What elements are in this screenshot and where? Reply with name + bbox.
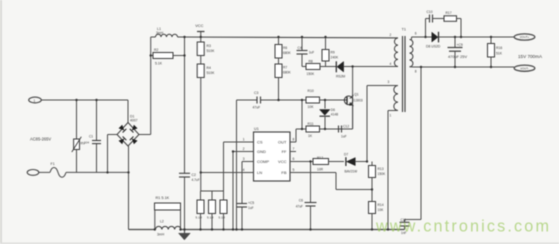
svg-text:4007: 4007 (130, 119, 138, 123)
svg-text:47uF: 47uF (253, 106, 261, 110)
svg-text:240K: 240K (331, 55, 340, 59)
svg-text:3mH: 3mH (157, 232, 165, 236)
svg-text:C12: C12 (343, 125, 349, 129)
svg-text:8: 8 (415, 70, 417, 74)
svg-text:510K: 510K (207, 49, 216, 53)
svg-text:RS2M: RS2M (336, 75, 345, 79)
svg-text:D7: D7 (344, 152, 348, 156)
svg-text:R2: R2 (154, 48, 158, 52)
svg-text:6: 6 (293, 157, 295, 161)
svg-text:R11: R11 (308, 122, 314, 126)
svg-text:5.1R: 5.1R (207, 216, 214, 220)
svg-text:R16: R16 (496, 46, 502, 50)
svg-text:6: 6 (415, 32, 417, 36)
svg-text:VCC: VCC (195, 23, 203, 28)
svg-text:Q1: Q1 (354, 93, 359, 97)
svg-text:10R: 10R (317, 168, 324, 172)
svg-text:R6: R6 (283, 46, 287, 50)
svg-text:10K: 10K (378, 208, 385, 212)
svg-text:4: 4 (390, 62, 392, 66)
svg-text:1uF: 1uF (248, 206, 254, 210)
svg-text:1: 1 (390, 114, 392, 118)
svg-text:C10: C10 (427, 10, 433, 14)
svg-text:LN: LN (257, 170, 262, 175)
svg-text:R17: R17 (446, 11, 452, 15)
svg-text:5.1K: 5.1K (155, 62, 163, 66)
svg-text:www.cntronics.com: www.cntronics.com (375, 218, 551, 236)
svg-text:5.1R: 5.1R (196, 216, 203, 220)
svg-text:510K: 510K (207, 71, 216, 75)
svg-text:D6: D6 (331, 108, 335, 112)
svg-text:2: 2 (390, 33, 392, 37)
svg-text:150K: 150K (307, 72, 316, 76)
svg-text:COMP: COMP (257, 159, 269, 164)
svg-text:R13: R13 (378, 167, 384, 171)
svg-text:8: 8 (293, 138, 295, 142)
svg-text:R3: R3 (207, 44, 211, 48)
svg-text:470uF 25V: 470uF 25V (448, 54, 467, 59)
svg-text:1: 1 (34, 99, 36, 103)
svg-text:L1: L1 (157, 27, 161, 31)
svg-text:C4: C4 (298, 46, 302, 50)
svg-text:C6: C6 (299, 199, 303, 203)
svg-text:1: 1 (243, 138, 245, 142)
svg-text:T1: T1 (402, 28, 406, 32)
svg-text:104: 104 (84, 140, 89, 144)
svg-text:1K: 1K (308, 134, 313, 138)
svg-text:FF: FF (282, 149, 287, 154)
svg-text:680K: 680K (283, 71, 292, 75)
svg-text:51K: 51K (496, 51, 503, 55)
svg-text:15V 700mA: 15V 700mA (518, 54, 543, 59)
svg-text:OUT: OUT (278, 140, 287, 145)
svg-text:3mH: 3mH (156, 31, 164, 35)
svg-text:R1 5.1K: R1 5.1K (156, 196, 170, 200)
svg-text:1uF: 1uF (341, 135, 347, 139)
svg-text:C3: C3 (254, 91, 258, 95)
svg-text:AC85-265V: AC85-265V (30, 136, 51, 141)
svg-text:+C9: +C9 (457, 43, 463, 47)
svg-text:+C5: +C5 (248, 201, 254, 205)
svg-text:R8: R8 (309, 60, 313, 64)
svg-text:10K: 10K (308, 105, 315, 109)
svg-text:3: 3 (388, 80, 390, 84)
svg-text:2: 2 (243, 147, 245, 151)
svg-text:C2: C2 (192, 173, 196, 177)
svg-text:680K: 680K (283, 51, 292, 55)
svg-text:4148: 4148 (331, 113, 339, 117)
svg-text:13003: 13003 (354, 98, 363, 102)
svg-text:R14: R14 (378, 203, 384, 207)
svg-text:3: 3 (243, 157, 245, 161)
svg-text:1uF: 1uF (309, 50, 315, 54)
svg-text:4.7uF: 4.7uF (192, 178, 200, 182)
svg-text:CS: CS (257, 140, 263, 145)
svg-text:U1: U1 (254, 127, 259, 131)
svg-text:4: 4 (243, 168, 245, 172)
svg-text:L2: L2 (160, 220, 164, 224)
svg-text:150K: 150K (378, 172, 387, 176)
svg-text:VOUT+: VOUT+ (520, 35, 530, 39)
svg-text:D8 US2D: D8 US2D (426, 45, 441, 49)
svg-text:BAV21W: BAV21W (345, 170, 358, 174)
svg-text:FB: FB (281, 170, 286, 175)
svg-text:VCC: VCC (278, 159, 287, 164)
svg-text:R7: R7 (283, 66, 287, 70)
svg-text:47uF: 47uF (296, 205, 303, 209)
svg-text:5.1R: 5.1R (219, 216, 226, 220)
svg-text:R12: R12 (317, 156, 323, 160)
svg-text:7: 7 (293, 147, 295, 151)
svg-text:GND: GND (257, 149, 266, 154)
svg-text:5: 5 (293, 168, 295, 172)
svg-text:R9: R9 (331, 50, 335, 54)
svg-text:R4: R4 (207, 66, 211, 70)
svg-text:C1: C1 (89, 135, 93, 139)
svg-text:VOUT-: VOUT- (520, 66, 529, 70)
svg-text:R10: R10 (308, 89, 314, 93)
svg-text:F1: F1 (51, 162, 55, 166)
